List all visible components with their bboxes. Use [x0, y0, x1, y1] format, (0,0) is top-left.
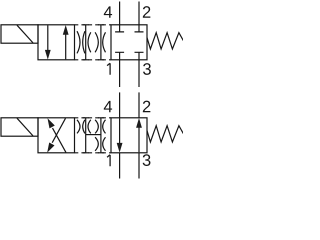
label port 1 (top valve) — [107, 63, 110, 74]
solenoid S1 diagonal — [17, 25, 33, 43]
arc V1 line N1 left ")" — [95, 32, 98, 52]
arrow V2a cross down-left — [52, 118, 65, 142]
port line 2 (bottom valve) — [138, 92, 140, 117]
solenoid S2 diagonal — [17, 118, 33, 136]
line N1 — [100, 25, 102, 60]
spring F2 (bottom valve) — [147, 126, 183, 142]
port line 1 (bottom valve) — [119, 153, 121, 179]
port line 4 (top valve) — [119, 2, 121, 25]
port line 4 (bottom valve) — [119, 92, 121, 117]
line N1 bottom cap — [98, 59, 104, 61]
valve V1 position square b — [111, 25, 147, 60]
valve V2 position square a — [38, 118, 75, 153]
arc V1 divider right "(" — [88, 32, 91, 52]
mid divider line V2 cell2 — [86, 134, 101, 136]
arc V2 line N2 right upper "(" — [103, 120, 106, 134]
port line 3 (bottom valve) — [138, 153, 140, 179]
arc pair V2 cell1 upper ")(" — [77, 120, 80, 134]
arrow V1a down — [47, 25, 49, 51]
line N2 top cap — [98, 117, 104, 119]
blocked port V1 bottom-right — [135, 52, 144, 59]
label port 1 (bottom valve) — [107, 155, 110, 166]
line N2 bottom cap — [98, 152, 104, 154]
line N2 — [100, 118, 102, 153]
label port 4 (top valve) — [104, 6, 112, 17]
blocked port V1 top-right — [135, 25, 144, 32]
arc V2 line N2 left lower ")" — [95, 137, 98, 151]
divider M2 top cap — [83, 117, 89, 119]
valve V2 position square b — [111, 118, 147, 153]
label port 2 (top valve) — [143, 6, 151, 18]
arc V2 line N2 left upper ")" — [95, 120, 98, 134]
solenoid S2 (bottom valve actuator box) — [1, 118, 38, 136]
valve V2 transition dashed top border — [75, 117, 112, 119]
arc V1 line N1 right "(" — [103, 32, 106, 52]
port line 3 (top valve) — [138, 60, 140, 87]
line N1 top cap — [98, 24, 104, 26]
label port 3 (top valve) — [143, 63, 151, 75]
blocked port V1 bottom-left — [115, 52, 124, 59]
label port 4 (bottom valve) — [104, 101, 112, 112]
arrow V2a cross up-left — [53, 128, 67, 153]
divider M2 bottom cap — [83, 152, 89, 154]
arc V2 divider right upper "(" — [88, 120, 91, 134]
divider M1 top cap — [83, 24, 89, 26]
valve V1 transition dashed bottom border — [75, 59, 112, 61]
port line 2 (top valve) — [138, 2, 140, 25]
valve V1 transition dashed top border — [75, 24, 112, 26]
valve V1 position square a — [38, 25, 75, 60]
arc pair V1 cell1 closed ")(" — [77, 31, 80, 53]
port line 1 (top valve) — [119, 60, 121, 87]
divider line M2 — [85, 118, 87, 153]
label port 3 (bottom valve) — [143, 154, 151, 166]
blocked port V1 top-left — [115, 25, 124, 32]
divider M1 bottom cap — [83, 59, 89, 61]
valve V2 transition dashed bottom border — [75, 152, 112, 154]
arrow V1a up — [65, 34, 67, 59]
arrow V2b up — [138, 127, 140, 152]
spring F1 (top valve) — [147, 33, 183, 49]
divider line M1 — [85, 25, 87, 60]
solenoid S1 (top valve actuator box) — [1, 25, 38, 43]
arc V2 line N2 right lower "(" — [103, 137, 106, 151]
arrow V2b down — [119, 118, 121, 144]
label port 2 (bottom valve) — [143, 101, 151, 113]
